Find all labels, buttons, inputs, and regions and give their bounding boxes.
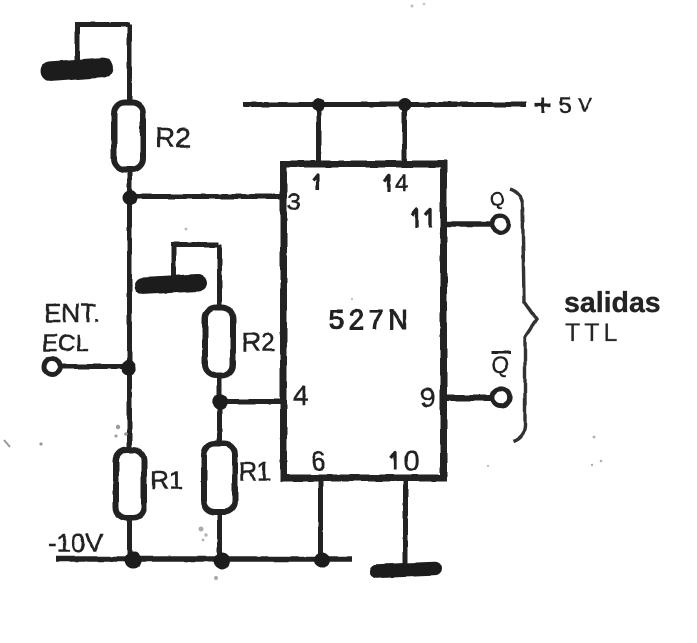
svg-text:3: 3 xyxy=(287,189,300,216)
svg-text:ECL: ECL xyxy=(42,330,89,357)
svg-text:6: 6 xyxy=(311,446,326,476)
svg-text:TTL: TTL xyxy=(565,319,621,347)
svg-text:4: 4 xyxy=(293,380,309,411)
svg-text:4: 4 xyxy=(395,170,408,197)
svg-text:9: 9 xyxy=(420,382,436,413)
svg-text:Q: Q xyxy=(490,190,505,211)
svg-text:salidas: salidas xyxy=(564,287,661,319)
svg-text:R2: R2 xyxy=(242,327,275,357)
svg-text:ENT.: ENT. xyxy=(44,298,100,328)
svg-text:5: 5 xyxy=(559,92,572,118)
svg-text:R1: R1 xyxy=(150,465,183,495)
svg-text:527N: 527N xyxy=(329,304,412,335)
svg-text:R2: R2 xyxy=(155,122,191,153)
svg-text:0: 0 xyxy=(404,445,420,476)
svg-text:R1: R1 xyxy=(239,458,271,486)
svg-text:Q: Q xyxy=(492,353,509,378)
svg-text:V: V xyxy=(578,95,592,117)
svg-text:-10V: -10V xyxy=(48,528,104,558)
